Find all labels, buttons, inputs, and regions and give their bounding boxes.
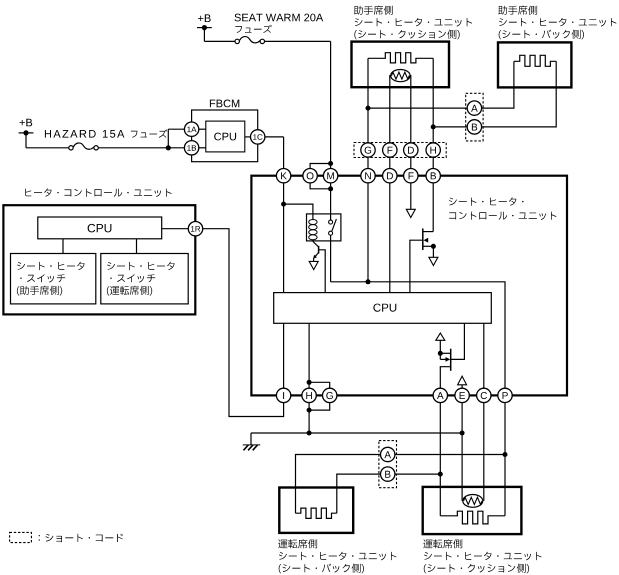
label passenger back line3 (シート・バック側) bbox=[499, 30, 584, 40]
terminal 1A bbox=[184, 122, 198, 136]
terminal E bbox=[455, 388, 469, 402]
label driver back line2 シート・ヒータ・ユニット bbox=[279, 552, 397, 561]
battery feed +B (left) bbox=[20, 119, 33, 127]
ground bus wire bbox=[251, 432, 462, 434]
junction to short code A (top) bbox=[366, 106, 371, 111]
short code box (bottom) bbox=[379, 441, 397, 488]
label ヒータ・コントロール・ユニット bbox=[25, 188, 172, 197]
wire P to heater element (driver cushion) bbox=[504, 403, 506, 516]
terminal M bbox=[323, 169, 337, 183]
wire CPU to I bbox=[283, 323, 285, 388]
thermostat TH1 (passenger cushion) bbox=[391, 70, 410, 82]
thermostat TH2 (driver cushion) bbox=[463, 495, 483, 508]
wire Q3 gate to CPU bbox=[451, 323, 465, 359]
label switch passenger line1 bbox=[17, 262, 84, 270]
jumper H-G lower bbox=[307, 408, 312, 413]
wire connector A to seat back unit bbox=[482, 87, 514, 108]
junction N-bus bbox=[366, 279, 371, 284]
label passenger line1 助手席側 bbox=[354, 6, 393, 15]
heater control unit box bbox=[3, 205, 195, 314]
connector row box (dashed) bbox=[354, 143, 446, 158]
wire thermostat to F connector bbox=[389, 76, 392, 143]
terminal K bbox=[276, 169, 290, 183]
wire K to CPU bbox=[283, 183, 285, 293]
label driver back line1 運転席側 bbox=[278, 539, 317, 548]
wire arrow to E bbox=[461, 385, 463, 388]
connector B (top) bbox=[467, 120, 481, 134]
label switch passenger line2 bbox=[20, 274, 65, 282]
label passenger back line1 助手席側 bbox=[498, 6, 537, 15]
wire connector B (bottom) to seat back unit bbox=[337, 474, 381, 513]
wire connector A (bottom) to P line bbox=[395, 454, 505, 456]
connector A (top) bbox=[467, 101, 481, 115]
ground G1 (chassis) bbox=[250, 433, 252, 445]
junction Q2 source bbox=[431, 244, 436, 249]
legend short code box (dashed) bbox=[10, 532, 32, 542]
passenger seat back heater unit box bbox=[498, 42, 571, 87]
wire connector B (bottom) to A line bbox=[395, 473, 440, 475]
terminal O bbox=[303, 169, 317, 183]
terminal 1R bbox=[188, 222, 202, 236]
CPU U1 (FBCM) bbox=[206, 121, 245, 152]
connector D bbox=[404, 143, 418, 157]
driver seat cushion heater unit box bbox=[423, 487, 522, 534]
label switch driver line3 bbox=[107, 286, 152, 296]
internal bus wire to P bbox=[331, 282, 505, 388]
wire connector B to seat back unit bbox=[482, 87, 557, 127]
ground arrow Q1 (open triangle) bbox=[309, 261, 318, 269]
arrow F to ground (open triangle) bbox=[406, 209, 415, 217]
fuse SEAT WARM 20A bbox=[203, 28, 205, 42]
wire junction to connector A bbox=[368, 107, 467, 109]
junction to short code B (top) bbox=[431, 124, 436, 129]
legend text ：ショート・コード bbox=[39, 534, 123, 542]
CPU U3 (seat heater control unit) bbox=[274, 293, 492, 324]
wire element to G connector bbox=[367, 58, 369, 143]
wire CPU to driver switch bbox=[136, 239, 138, 254]
terminal I bbox=[276, 388, 290, 402]
terminal 1C bbox=[251, 130, 265, 144]
wire D to F bbox=[410, 157, 412, 168]
label switch passenger line3 bbox=[17, 286, 62, 296]
junction A-short code B (bottom) bbox=[438, 472, 443, 477]
CPU U2 (heater control unit) bbox=[38, 217, 162, 239]
wire 1R to terminal I bbox=[203, 229, 284, 417]
wire H to ground bus bbox=[308, 403, 310, 433]
wire D to CPU bbox=[389, 183, 391, 293]
short code box (top) bbox=[466, 93, 483, 141]
label passenger line2 シート・ヒータ・ユニット bbox=[355, 18, 473, 27]
connector B (bottom) bbox=[381, 467, 395, 481]
terminal F (top) bbox=[404, 169, 418, 183]
connector A (bottom) bbox=[381, 447, 395, 461]
terminal D (top) bbox=[383, 169, 397, 183]
label unit line2 コントロール・ユニット bbox=[449, 212, 556, 220]
passenger seat cushion heater unit box bbox=[352, 42, 450, 88]
junction H-ground bus bbox=[307, 431, 312, 436]
wire connector A (bottom) to seat back unit bbox=[296, 455, 381, 514]
wire M to relay contact bbox=[330, 183, 332, 220]
label driver cushion line1 運転席側 bbox=[423, 539, 462, 548]
heater element R4 (driver cushion) bbox=[440, 511, 505, 524]
seat heater control unit box bbox=[251, 176, 567, 396]
battery feed +B (top) bbox=[198, 14, 211, 22]
terminal B (unit) bbox=[426, 169, 440, 183]
wire Q2 gate to CPU bbox=[410, 240, 423, 292]
wire C to thermostat (driver cushion) bbox=[483, 403, 485, 501]
transistor Q1 (relay driver) bbox=[313, 242, 319, 247]
relay K1 coil bbox=[312, 214, 314, 220]
wire relay contact to internal bus bbox=[330, 235, 332, 282]
label switch driver line2 bbox=[110, 274, 155, 282]
wire CPU to C bbox=[483, 323, 485, 388]
wire E to thermostat (driver cushion) bbox=[461, 403, 463, 501]
label fuse (left) フューズ bbox=[131, 130, 168, 138]
seat heater switch (passenger side) box bbox=[11, 254, 96, 304]
wire HAZARD fuse to FBCM 1B bbox=[98, 147, 184, 149]
seat heater switch (driver side) box bbox=[101, 254, 188, 304]
terminal A (unit) bbox=[433, 388, 447, 402]
jumper O-M lower bbox=[328, 186, 333, 191]
terminal G (unit) bbox=[323, 388, 337, 402]
wire H to B bbox=[432, 157, 434, 168]
junction to 1A bbox=[166, 145, 171, 150]
label fuse (top) フューズ bbox=[235, 25, 271, 33]
heater element R1 (passenger cushion) bbox=[368, 53, 433, 63]
heater element R2 (passenger back) bbox=[514, 55, 556, 66]
transistor Q2 (MOSFET, seat back driver) bbox=[422, 229, 424, 251]
terminal H (unit) bbox=[302, 388, 316, 402]
wire element to H connector bbox=[432, 58, 434, 143]
terminal 1B bbox=[184, 141, 198, 155]
wire A to heater element (driver cushion) bbox=[439, 403, 441, 516]
jumper H-G upper bbox=[307, 380, 312, 385]
wire B to MOSFET drain bbox=[432, 183, 434, 232]
relay K1 contact bbox=[329, 220, 333, 224]
label passenger back line2 シート・ヒータ・ユニット bbox=[499, 18, 617, 27]
junction ground bus to E line bbox=[460, 431, 465, 436]
jumper O-M upper bbox=[328, 161, 333, 166]
up arrow E (open triangle) bbox=[458, 376, 467, 385]
terminal N bbox=[361, 169, 375, 183]
driver seat back heater unit box bbox=[279, 488, 353, 533]
wire junction to connector B bbox=[433, 126, 467, 128]
relay K1 box bbox=[307, 214, 341, 241]
terminal P bbox=[498, 388, 512, 402]
wire Q2 source to arrow bbox=[432, 246, 434, 257]
wire Q1 base to CPU bbox=[319, 250, 326, 293]
fuse HAZARD 15A bbox=[25, 133, 27, 148]
label driver back line3 (シート・バック側) bbox=[279, 564, 364, 574]
wire CPU to H bbox=[308, 323, 310, 388]
wire junction to relay coil bbox=[284, 204, 313, 214]
wire G to N bbox=[367, 157, 369, 168]
label passenger line3 (シート・クッション側) bbox=[354, 30, 459, 40]
heater element R3 (driver back) bbox=[296, 508, 337, 518]
label driver cushion line2 シート・ヒータ・ユニット bbox=[424, 552, 541, 561]
up arrow Q3 drain (open triangle) bbox=[436, 333, 445, 340]
junction K-relay bbox=[281, 202, 286, 207]
wire 1C to terminal K bbox=[265, 136, 284, 138]
wire N to internal bus bbox=[367, 183, 369, 282]
wire F to D bbox=[389, 157, 391, 168]
label unit line1 シート・ヒータ・ bbox=[449, 197, 524, 205]
label driver cushion line3 (シート・クッション側) bbox=[424, 564, 529, 574]
label switch driver line1 bbox=[107, 262, 174, 270]
wire CPU to 1R bbox=[162, 228, 189, 230]
wire thermostat to D connector bbox=[409, 76, 412, 143]
terminal C bbox=[477, 388, 491, 402]
connector F bbox=[383, 143, 397, 157]
connector G bbox=[361, 143, 375, 157]
wire CPU to passenger switch bbox=[62, 239, 64, 254]
wire top fuse to terminal M bbox=[265, 40, 331, 42]
wire F to arrow bbox=[410, 183, 412, 209]
ground arrow Q2 (open triangle) bbox=[429, 257, 438, 265]
transistor Q3 (MOSFET, seat cushion driver) bbox=[450, 349, 452, 371]
junction P-short code A (bottom) bbox=[503, 452, 508, 457]
FBCM box bbox=[192, 110, 258, 162]
connector H bbox=[426, 143, 440, 157]
